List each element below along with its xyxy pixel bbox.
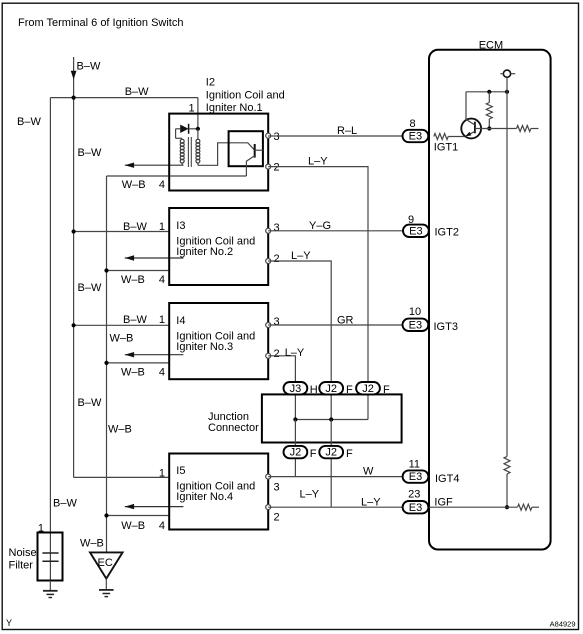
svg-text:F: F — [383, 384, 390, 396]
svg-text:E3: E3 — [409, 502, 422, 514]
svg-text:W–B: W–B — [121, 520, 145, 532]
svg-text:IGT4: IGT4 — [435, 473, 459, 485]
svg-text:1: 1 — [159, 468, 165, 480]
svg-text:H: H — [310, 384, 318, 396]
svg-text:R–L: R–L — [337, 125, 357, 137]
svg-text:B–W: B–W — [53, 498, 77, 510]
svg-text:B–W: B–W — [125, 86, 149, 98]
svg-text:J2: J2 — [325, 447, 337, 459]
svg-text:B–W: B–W — [78, 282, 102, 294]
svg-text:Igniter No.2: Igniter No.2 — [176, 246, 233, 258]
svg-text:Igniter No.4: Igniter No.4 — [176, 491, 233, 503]
svg-text:3: 3 — [274, 316, 280, 328]
svg-text:Y–G: Y–G — [309, 220, 331, 232]
svg-text:W: W — [363, 466, 374, 478]
svg-text:4: 4 — [159, 366, 165, 378]
svg-text:J2: J2 — [362, 383, 374, 395]
svg-text:L–Y: L–Y — [300, 488, 320, 500]
svg-text:E3: E3 — [409, 319, 422, 331]
svg-text:Connector: Connector — [208, 422, 259, 434]
svg-text:2: 2 — [274, 348, 280, 360]
svg-text:2: 2 — [274, 511, 280, 523]
svg-text:B–W: B–W — [78, 147, 102, 159]
svg-text:E3: E3 — [409, 471, 422, 483]
svg-text:W–B: W–B — [110, 333, 134, 345]
svg-text:1: 1 — [159, 221, 165, 233]
svg-text:2: 2 — [274, 162, 280, 174]
svg-text:L–Y: L–Y — [285, 347, 305, 359]
svg-text:W–B: W–B — [121, 274, 145, 286]
svg-text:W–B: W–B — [108, 423, 132, 435]
svg-text:J3: J3 — [290, 383, 302, 395]
svg-text:B–W: B–W — [123, 314, 147, 326]
svg-text:F: F — [310, 448, 317, 460]
svg-text:Noise: Noise — [9, 547, 37, 559]
svg-text:I4: I4 — [176, 315, 185, 327]
svg-text:A84929: A84929 — [550, 620, 576, 629]
svg-text:F: F — [346, 448, 353, 460]
svg-text:L–Y: L–Y — [361, 497, 381, 509]
svg-text:1: 1 — [38, 523, 44, 535]
svg-text:Filter: Filter — [9, 559, 34, 571]
svg-text:4: 4 — [159, 520, 165, 532]
svg-text:B–W: B–W — [123, 221, 147, 233]
svg-text:3: 3 — [274, 222, 280, 234]
svg-text:EC: EC — [98, 557, 113, 569]
svg-text:11: 11 — [409, 458, 420, 470]
svg-text:1: 1 — [159, 314, 165, 326]
svg-text:ECM: ECM — [479, 39, 503, 51]
svg-text:Igniter No.1: Igniter No.1 — [206, 102, 263, 114]
svg-text:W–B: W–B — [122, 179, 146, 191]
svg-text:I3: I3 — [176, 220, 185, 232]
svg-text:3: 3 — [274, 481, 280, 493]
svg-text:10: 10 — [409, 306, 421, 318]
svg-text:J2: J2 — [290, 447, 302, 459]
svg-text:4: 4 — [159, 274, 165, 286]
svg-text:I2: I2 — [206, 77, 215, 89]
svg-text:Ignition Coil and: Ignition Coil and — [206, 90, 285, 102]
svg-text:3: 3 — [274, 131, 280, 143]
svg-text:I5: I5 — [176, 465, 185, 477]
svg-text:4: 4 — [159, 179, 165, 191]
svg-text:E3: E3 — [409, 131, 422, 143]
svg-text:E3: E3 — [409, 225, 422, 237]
svg-text:Igniter No.3: Igniter No.3 — [176, 341, 233, 353]
svg-text:Y: Y — [6, 618, 12, 628]
svg-text:23: 23 — [408, 488, 420, 500]
svg-text:L–Y: L–Y — [291, 250, 311, 262]
svg-text:B–W: B–W — [77, 61, 101, 73]
svg-text:IGT3: IGT3 — [434, 321, 458, 333]
svg-text:8: 8 — [409, 118, 415, 130]
svg-text:W–B: W–B — [121, 366, 145, 378]
svg-text:IGT2: IGT2 — [435, 227, 459, 239]
svg-text:F: F — [346, 384, 353, 396]
svg-text:IGT1: IGT1 — [434, 142, 458, 154]
svg-text:B–W: B–W — [17, 116, 41, 128]
svg-text:W–B: W–B — [80, 538, 104, 550]
svg-text:L–Y: L–Y — [308, 156, 328, 168]
svg-text:B–W: B–W — [78, 397, 102, 409]
svg-text:J2: J2 — [325, 383, 337, 395]
svg-text:2: 2 — [274, 253, 280, 265]
svg-text:GR: GR — [337, 315, 354, 327]
svg-text:9: 9 — [408, 214, 414, 226]
svg-text:From Terminal 6 of Ignition Sw: From Terminal 6 of Ignition Switch — [18, 17, 183, 29]
